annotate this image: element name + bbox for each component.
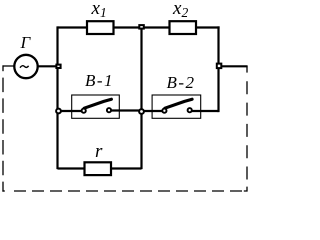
svg-text:В-1: В-1 <box>85 71 114 90</box>
node J4 left bus at switch row <box>56 109 61 114</box>
wire right bus vertical <box>217 26 219 112</box>
dashed right vertical <box>246 81 248 183</box>
svg-text:r: r <box>95 141 103 162</box>
switch B-2 blade <box>165 99 192 108</box>
resistor x1 <box>87 21 114 34</box>
dashed left vertical (corner piece) <box>2 65 4 71</box>
switch B-1 blade <box>84 99 111 108</box>
dashed left vertical <box>2 78 4 192</box>
wire generator right stub <box>38 65 58 67</box>
node J3 left bus at generator <box>56 65 60 68</box>
wire left bus vertical <box>56 26 58 169</box>
svg-text:Γ: Γ <box>20 33 32 52</box>
wire top-left horizontal to x1 <box>58 26 88 28</box>
dashed bottom-right corner <box>244 187 247 191</box>
switch B-2 left terminal <box>162 109 166 113</box>
wire branch J2 to dashed right <box>219 65 248 67</box>
wire switch row: bus to B-1 <box>58 110 85 112</box>
dashed bottom-left corner stub <box>2 190 4 192</box>
wire J5 to B-2 <box>142 110 165 112</box>
wire bottom row left <box>58 167 85 169</box>
wire x1 to node J1 <box>113 26 141 28</box>
switch B-1 enclosure <box>72 95 120 118</box>
wire B-1 to J5 <box>109 109 142 111</box>
wire B-2 to right bus <box>190 110 219 112</box>
switch B-1 left terminal <box>82 109 86 113</box>
wire bottom row right <box>111 167 142 169</box>
node J5 middle vertical at switch row <box>139 109 144 114</box>
dashed bottom horizontal <box>14 190 247 192</box>
generator G circle <box>14 55 37 78</box>
wire x2 to top-right corner <box>196 26 220 28</box>
switch B-2 enclosure <box>152 95 201 118</box>
resistor r <box>85 162 112 175</box>
node J2 right bus <box>217 64 222 69</box>
switch B-2 right terminal <box>188 108 192 112</box>
node J1 top middle <box>139 25 144 29</box>
wire generator left stub <box>3 65 15 67</box>
generator tilde <box>20 66 29 68</box>
svg-text:В-2: В-2 <box>167 73 196 92</box>
dashed right vertical (corner piece) <box>246 66 248 73</box>
switch B-1 right terminal <box>107 108 111 112</box>
wire middle vertical <box>140 28 142 170</box>
resistor x2 <box>170 21 197 34</box>
wire J1 to x2 <box>142 26 170 28</box>
